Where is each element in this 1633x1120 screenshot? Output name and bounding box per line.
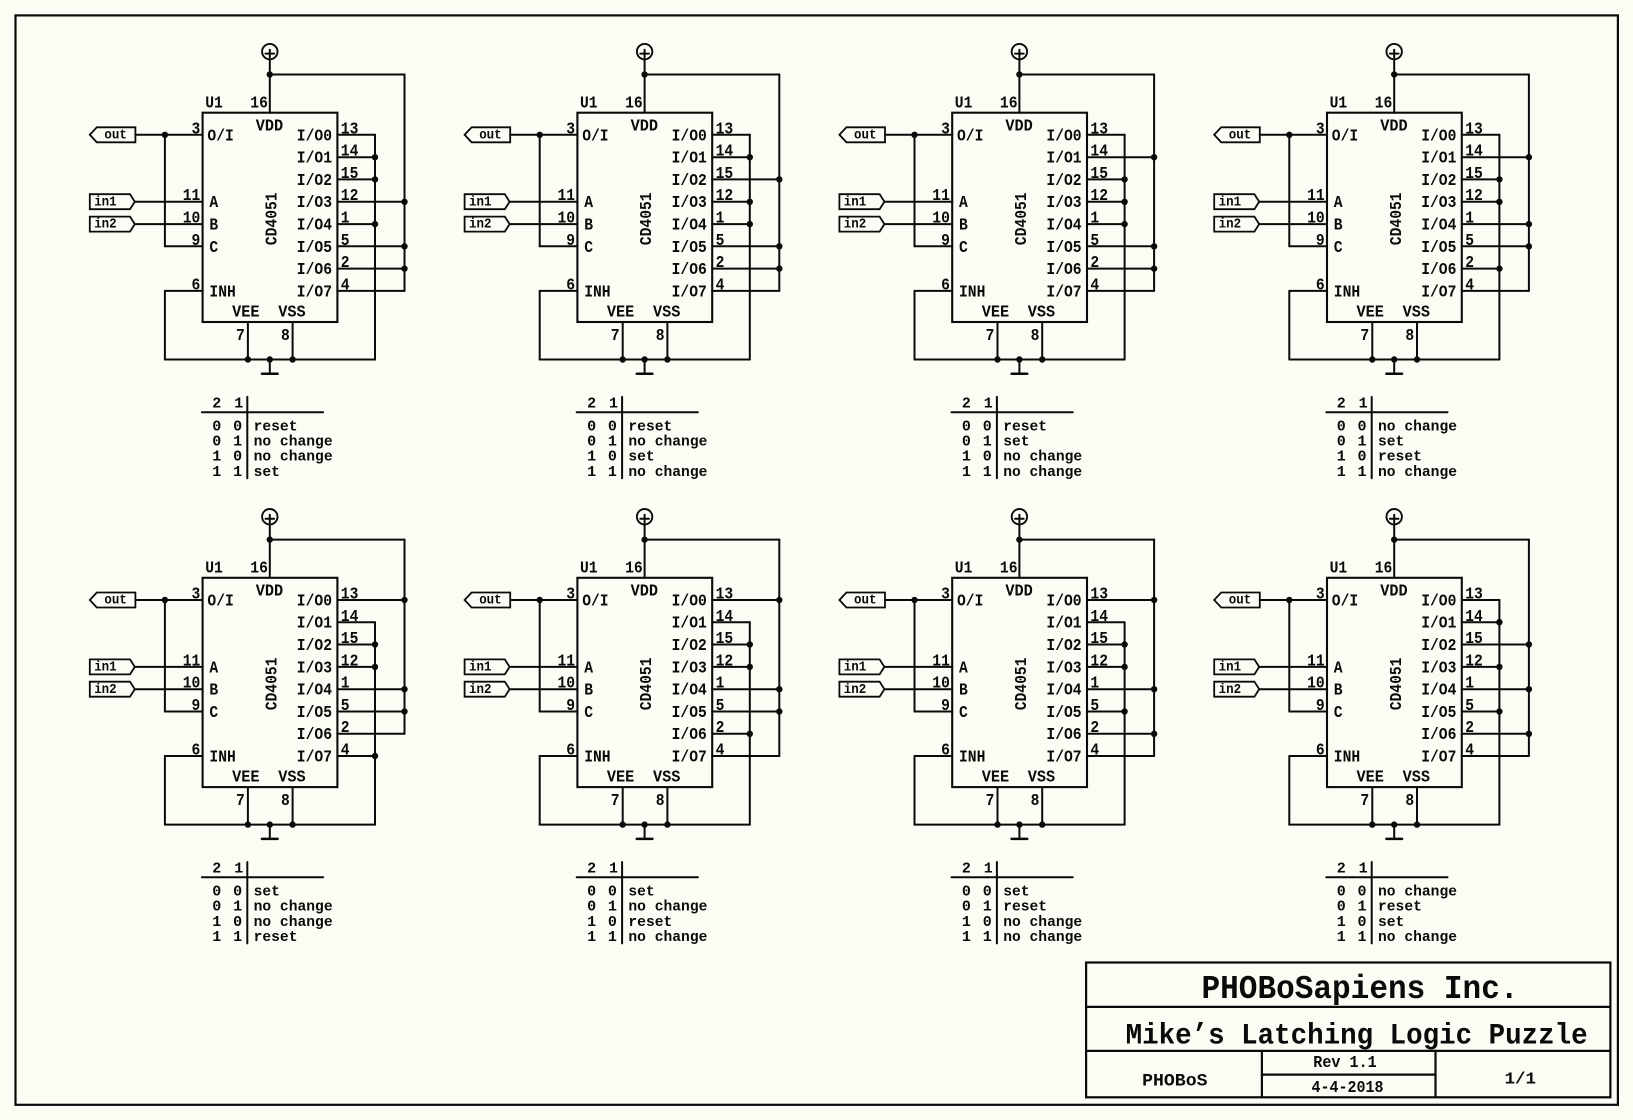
svg-text:I/O2: I/O2 (297, 172, 332, 191)
svg-text:VSS: VSS (278, 769, 305, 788)
svg-text:8: 8 (656, 792, 665, 811)
svg-text:I/O2: I/O2 (1046, 637, 1081, 656)
svg-text:2: 2 (1337, 395, 1346, 412)
svg-text:INH: INH (584, 283, 610, 302)
svg-text:VSS: VSS (278, 303, 305, 322)
svg-text:I/O3: I/O3 (1421, 194, 1456, 213)
svg-text:1: 1 (983, 929, 992, 946)
svg-text:I/O4: I/O4 (1046, 217, 1081, 236)
svg-text:INH: INH (959, 749, 985, 768)
svg-text:I/O0: I/O0 (1046, 592, 1081, 611)
svg-text:out: out (479, 127, 502, 143)
svg-text:I/O3: I/O3 (1421, 659, 1456, 678)
svg-text:8: 8 (1405, 792, 1414, 811)
svg-text:VEE: VEE (232, 303, 259, 322)
svg-text:VDD: VDD (256, 582, 283, 601)
svg-text:2: 2 (1090, 254, 1099, 273)
svg-text:U1: U1 (580, 560, 598, 579)
svg-text:9: 9 (566, 232, 575, 251)
svg-text:I/O1: I/O1 (672, 150, 707, 169)
svg-text:3: 3 (941, 120, 950, 139)
svg-text:9: 9 (1316, 232, 1325, 251)
svg-text:1: 1 (233, 929, 242, 946)
svg-text:B: B (584, 682, 593, 701)
svg-text:I/O6: I/O6 (297, 261, 332, 280)
svg-text:8: 8 (281, 792, 290, 811)
svg-text:in1: in1 (1219, 660, 1242, 676)
svg-text:9: 9 (192, 697, 201, 716)
svg-text:U1: U1 (205, 560, 223, 579)
svg-text:I/O1: I/O1 (297, 615, 332, 634)
svg-text:14: 14 (1465, 143, 1483, 162)
svg-text:out: out (104, 127, 127, 143)
svg-text:2: 2 (962, 395, 971, 412)
svg-text:in2: in2 (1219, 682, 1242, 698)
svg-text:I/O6: I/O6 (1421, 261, 1456, 280)
svg-text:16: 16 (250, 95, 268, 114)
svg-text:1: 1 (1359, 395, 1368, 412)
svg-text:A: A (959, 659, 968, 678)
svg-text:4: 4 (1465, 276, 1474, 295)
svg-text:1: 1 (962, 929, 971, 946)
svg-text:INH: INH (209, 283, 235, 302)
svg-text:INH: INH (959, 283, 985, 302)
svg-text:3: 3 (941, 586, 950, 605)
svg-text:U1: U1 (955, 95, 973, 114)
svg-text:in1: in1 (94, 194, 117, 210)
svg-text:1: 1 (962, 464, 971, 481)
svg-text:4: 4 (1090, 276, 1099, 295)
svg-text:16: 16 (1375, 95, 1393, 114)
svg-text:I/O0: I/O0 (672, 592, 707, 611)
svg-text:I/O7: I/O7 (1046, 283, 1081, 302)
svg-text:16: 16 (1000, 560, 1018, 579)
svg-text:I/O3: I/O3 (672, 194, 707, 213)
svg-text:I/O0: I/O0 (1421, 592, 1456, 611)
svg-text:1: 1 (984, 395, 993, 412)
svg-text:11: 11 (932, 187, 950, 206)
svg-text:C: C (584, 239, 593, 258)
svg-text:VDD: VDD (1380, 117, 1407, 136)
svg-text:VSS: VSS (1403, 769, 1430, 788)
svg-text:10: 10 (1307, 210, 1325, 229)
svg-text:11: 11 (558, 652, 576, 671)
svg-text:VDD: VDD (631, 582, 658, 601)
svg-text:in1: in1 (94, 660, 117, 676)
svg-text:12: 12 (1090, 187, 1108, 206)
svg-text:11: 11 (183, 187, 201, 206)
svg-text:in1: in1 (469, 194, 492, 210)
svg-text:I/O6: I/O6 (1046, 726, 1081, 745)
svg-text:VSS: VSS (1403, 303, 1430, 322)
svg-text:7: 7 (611, 792, 620, 811)
svg-text:14: 14 (1090, 143, 1108, 162)
svg-text:6: 6 (566, 276, 575, 295)
svg-text:U1: U1 (580, 95, 598, 114)
svg-text:C: C (209, 239, 218, 258)
svg-text:in1: in1 (1219, 194, 1242, 210)
svg-text:15: 15 (1465, 630, 1483, 649)
svg-text:CD4051: CD4051 (638, 658, 657, 711)
svg-text:C: C (959, 239, 968, 258)
svg-text:CD4051: CD4051 (1388, 658, 1407, 711)
svg-text:A: A (584, 194, 593, 213)
svg-text:4: 4 (1465, 742, 1474, 761)
svg-text:CD4051: CD4051 (263, 658, 282, 711)
svg-text:2: 2 (716, 719, 725, 738)
svg-text:12: 12 (1465, 652, 1483, 671)
svg-text:2: 2 (341, 254, 350, 273)
svg-text:I/O4: I/O4 (672, 682, 707, 701)
svg-text:1: 1 (587, 464, 596, 481)
svg-text:6: 6 (1316, 276, 1325, 295)
svg-text:I/O0: I/O0 (672, 127, 707, 146)
svg-text:A: A (209, 194, 218, 213)
svg-text:10: 10 (558, 675, 576, 694)
svg-text:O/I: O/I (957, 127, 983, 146)
svg-text:I/O5: I/O5 (1421, 239, 1456, 258)
svg-text:B: B (1334, 217, 1343, 236)
svg-text:16: 16 (250, 560, 268, 579)
svg-text:4-4-2018: 4-4-2018 (1312, 1078, 1384, 1097)
svg-text:reset: reset (254, 929, 298, 946)
svg-text:I/O0: I/O0 (297, 592, 332, 611)
svg-text:2: 2 (587, 860, 596, 877)
svg-text:PHOBoSapiens Inc.: PHOBoSapiens Inc. (1202, 971, 1519, 1008)
svg-text:8: 8 (281, 327, 290, 346)
svg-text:VEE: VEE (232, 769, 259, 788)
svg-text:4: 4 (1090, 742, 1099, 761)
svg-text:1: 1 (608, 464, 617, 481)
svg-text:I/O3: I/O3 (297, 194, 332, 213)
svg-text:VSS: VSS (653, 769, 680, 788)
svg-text:16: 16 (1375, 560, 1393, 579)
svg-text:I/O1: I/O1 (672, 615, 707, 634)
svg-text:1: 1 (1337, 929, 1346, 946)
svg-text:5: 5 (716, 697, 725, 716)
svg-text:2: 2 (1090, 719, 1099, 738)
svg-text:I/O7: I/O7 (297, 749, 332, 768)
svg-text:4: 4 (716, 742, 725, 761)
svg-text:2: 2 (341, 719, 350, 738)
svg-text:I/O0: I/O0 (1421, 127, 1456, 146)
svg-text:13: 13 (1465, 120, 1483, 139)
svg-text:I/O7: I/O7 (297, 283, 332, 302)
svg-text:I/O1: I/O1 (1421, 615, 1456, 634)
svg-text:no change: no change (1003, 464, 1082, 481)
svg-text:VDD: VDD (1005, 582, 1032, 601)
svg-text:10: 10 (1307, 675, 1325, 694)
svg-text:1: 1 (1358, 464, 1367, 481)
svg-text:11: 11 (558, 187, 576, 206)
svg-text:U1: U1 (205, 95, 223, 114)
svg-text:I/O1: I/O1 (1046, 150, 1081, 169)
svg-text:I/O7: I/O7 (672, 749, 707, 768)
svg-text:I/O7: I/O7 (1046, 749, 1081, 768)
svg-text:14: 14 (1465, 608, 1483, 627)
svg-text:VSS: VSS (1028, 769, 1055, 788)
svg-text:1: 1 (341, 210, 350, 229)
svg-text:15: 15 (1090, 630, 1108, 649)
svg-text:I/O2: I/O2 (1421, 637, 1456, 656)
svg-text:15: 15 (1465, 165, 1483, 184)
svg-text:5: 5 (1090, 697, 1099, 716)
svg-text:7: 7 (611, 327, 620, 346)
svg-text:C: C (1334, 239, 1343, 258)
svg-text:VEE: VEE (607, 303, 634, 322)
svg-text:11: 11 (932, 652, 950, 671)
svg-text:Rev 1.1: Rev 1.1 (1313, 1053, 1377, 1072)
svg-text:2: 2 (1337, 860, 1346, 877)
svg-text:VSS: VSS (653, 303, 680, 322)
svg-text:1: 1 (1090, 675, 1099, 694)
svg-text:out: out (1229, 593, 1252, 609)
svg-text:9: 9 (192, 232, 201, 251)
svg-text:7: 7 (236, 792, 245, 811)
svg-text:I/O5: I/O5 (672, 704, 707, 723)
svg-text:I/O2: I/O2 (672, 172, 707, 191)
svg-text:16: 16 (625, 95, 643, 114)
svg-text:6: 6 (941, 742, 950, 761)
svg-text:INH: INH (1334, 749, 1360, 768)
svg-text:Mike’s Latching Logic Puzzle: Mike’s Latching Logic Puzzle (1126, 1019, 1588, 1053)
svg-text:I/O1: I/O1 (1046, 615, 1081, 634)
svg-text:I/O2: I/O2 (1046, 172, 1081, 191)
svg-text:I/O4: I/O4 (1421, 682, 1456, 701)
svg-text:8: 8 (656, 327, 665, 346)
svg-text:13: 13 (1090, 586, 1108, 605)
svg-text:PHOBoS: PHOBoS (1142, 1071, 1207, 1091)
svg-text:I/O5: I/O5 (1046, 704, 1081, 723)
svg-text:1: 1 (1090, 210, 1099, 229)
svg-text:C: C (209, 704, 218, 723)
svg-text:12: 12 (716, 187, 734, 206)
svg-text:10: 10 (183, 675, 201, 694)
svg-text:VDD: VDD (631, 117, 658, 136)
svg-text:A: A (584, 659, 593, 678)
svg-text:I/O1: I/O1 (297, 150, 332, 169)
svg-text:15: 15 (341, 630, 359, 649)
svg-text:2: 2 (587, 395, 596, 412)
svg-text:10: 10 (932, 675, 950, 694)
svg-text:out: out (479, 593, 502, 609)
svg-text:13: 13 (341, 586, 359, 605)
svg-text:I/O3: I/O3 (297, 659, 332, 678)
svg-text:VEE: VEE (1357, 303, 1384, 322)
svg-text:1: 1 (716, 210, 725, 229)
svg-text:12: 12 (1090, 652, 1108, 671)
svg-text:I/O6: I/O6 (1046, 261, 1081, 280)
svg-text:1: 1 (234, 860, 243, 877)
svg-text:U1: U1 (1330, 560, 1348, 579)
svg-text:1: 1 (234, 395, 243, 412)
svg-text:1: 1 (212, 929, 221, 946)
svg-text:no change: no change (1003, 929, 1082, 946)
svg-text:12: 12 (1465, 187, 1483, 206)
svg-text:O/I: O/I (582, 592, 608, 611)
svg-text:I/O5: I/O5 (1421, 704, 1456, 723)
svg-text:5: 5 (1465, 232, 1474, 251)
svg-text:C: C (959, 704, 968, 723)
svg-text:10: 10 (558, 210, 576, 229)
svg-text:13: 13 (341, 120, 359, 139)
svg-text:I/O7: I/O7 (1421, 749, 1456, 768)
svg-text:4: 4 (341, 742, 350, 761)
svg-text:14: 14 (716, 143, 734, 162)
svg-text:3: 3 (566, 586, 575, 605)
svg-text:9: 9 (566, 697, 575, 716)
svg-text:VSS: VSS (1028, 303, 1055, 322)
svg-text:I/O4: I/O4 (1421, 217, 1456, 236)
svg-text:16: 16 (625, 560, 643, 579)
svg-text:5: 5 (1090, 232, 1099, 251)
svg-text:B: B (959, 217, 968, 236)
svg-text:I/O0: I/O0 (297, 127, 332, 146)
svg-text:I/O4: I/O4 (672, 217, 707, 236)
svg-text:5: 5 (1465, 697, 1474, 716)
svg-text:1: 1 (608, 929, 617, 946)
svg-text:11: 11 (183, 652, 201, 671)
svg-text:CD4051: CD4051 (1013, 658, 1032, 711)
svg-text:I/O5: I/O5 (297, 704, 332, 723)
svg-text:1/1: 1/1 (1505, 1070, 1536, 1089)
svg-text:out: out (1229, 127, 1252, 143)
svg-text:10: 10 (932, 210, 950, 229)
svg-text:in2: in2 (94, 217, 117, 233)
svg-text:2: 2 (716, 254, 725, 273)
svg-text:12: 12 (341, 187, 359, 206)
svg-text:10: 10 (183, 210, 201, 229)
svg-text:I/O7: I/O7 (672, 283, 707, 302)
svg-text:3: 3 (192, 120, 201, 139)
svg-text:I/O2: I/O2 (672, 637, 707, 656)
svg-text:I/O1: I/O1 (1421, 150, 1456, 169)
svg-text:out: out (854, 593, 877, 609)
svg-text:2: 2 (962, 860, 971, 877)
svg-text:A: A (1334, 659, 1343, 678)
svg-text:1: 1 (341, 675, 350, 694)
svg-text:in1: in1 (844, 660, 867, 676)
svg-text:6: 6 (192, 276, 201, 295)
svg-text:6: 6 (192, 742, 201, 761)
svg-text:INH: INH (209, 749, 235, 768)
svg-text:in2: in2 (844, 217, 867, 233)
svg-text:INH: INH (584, 749, 610, 768)
svg-text:15: 15 (716, 630, 734, 649)
svg-text:6: 6 (941, 276, 950, 295)
svg-text:no change: no change (1378, 464, 1457, 481)
svg-text:I/O6: I/O6 (297, 726, 332, 745)
svg-text:8: 8 (1405, 327, 1414, 346)
svg-text:15: 15 (341, 165, 359, 184)
svg-text:11: 11 (1307, 652, 1325, 671)
svg-text:in1: in1 (469, 660, 492, 676)
svg-text:1: 1 (1358, 929, 1367, 946)
svg-text:7: 7 (986, 327, 995, 346)
svg-text:4: 4 (341, 276, 350, 295)
svg-text:14: 14 (341, 143, 359, 162)
svg-text:B: B (959, 682, 968, 701)
svg-text:O/I: O/I (957, 592, 983, 611)
svg-text:6: 6 (566, 742, 575, 761)
svg-text:VDD: VDD (1005, 117, 1032, 136)
svg-text:VDD: VDD (256, 117, 283, 136)
svg-text:9: 9 (1316, 697, 1325, 716)
svg-text:I/O5: I/O5 (1046, 239, 1081, 258)
svg-text:I/O4: I/O4 (1046, 682, 1081, 701)
svg-text:1: 1 (233, 464, 242, 481)
svg-text:in1: in1 (844, 194, 867, 210)
svg-text:no change: no change (1378, 929, 1457, 946)
svg-text:I/O5: I/O5 (297, 239, 332, 258)
svg-text:VDD: VDD (1380, 582, 1407, 601)
svg-text:I/O4: I/O4 (297, 217, 332, 236)
svg-text:1: 1 (984, 860, 993, 877)
svg-text:7: 7 (1360, 792, 1369, 811)
svg-text:out: out (854, 127, 877, 143)
svg-text:A: A (959, 194, 968, 213)
svg-text:I/O2: I/O2 (297, 637, 332, 656)
svg-text:U1: U1 (1330, 95, 1348, 114)
svg-text:VEE: VEE (982, 303, 1009, 322)
svg-text:A: A (1334, 194, 1343, 213)
svg-text:9: 9 (941, 697, 950, 716)
svg-text:11: 11 (1307, 187, 1325, 206)
svg-text:15: 15 (1090, 165, 1108, 184)
svg-text:1: 1 (1465, 210, 1474, 229)
svg-text:4: 4 (716, 276, 725, 295)
svg-text:VEE: VEE (607, 769, 634, 788)
svg-text:no change: no change (628, 464, 707, 481)
svg-text:1: 1 (609, 860, 618, 877)
svg-text:I/O6: I/O6 (1421, 726, 1456, 745)
svg-text:I/O3: I/O3 (1046, 659, 1081, 678)
svg-text:14: 14 (716, 608, 734, 627)
svg-text:2: 2 (212, 395, 221, 412)
svg-text:O/I: O/I (1332, 127, 1358, 146)
svg-text:B: B (584, 217, 593, 236)
svg-text:U1: U1 (955, 560, 973, 579)
svg-text:16: 16 (1000, 95, 1018, 114)
svg-text:O/I: O/I (582, 127, 608, 146)
svg-text:CD4051: CD4051 (1013, 192, 1032, 245)
svg-text:I/O6: I/O6 (672, 726, 707, 745)
svg-text:15: 15 (716, 165, 734, 184)
svg-text:3: 3 (1316, 120, 1325, 139)
svg-text:out: out (104, 593, 127, 609)
svg-text:12: 12 (716, 652, 734, 671)
svg-text:1: 1 (212, 464, 221, 481)
svg-text:O/I: O/I (1332, 592, 1358, 611)
svg-text:CD4051: CD4051 (638, 192, 657, 245)
svg-text:A: A (209, 659, 218, 678)
svg-text:O/I: O/I (207, 592, 233, 611)
svg-text:5: 5 (716, 232, 725, 251)
svg-text:3: 3 (1316, 586, 1325, 605)
svg-text:I/O0: I/O0 (1046, 127, 1081, 146)
svg-text:set: set (254, 464, 280, 481)
svg-text:1: 1 (1337, 464, 1346, 481)
svg-text:B: B (209, 682, 218, 701)
svg-text:I/O2: I/O2 (1421, 172, 1456, 191)
svg-text:3: 3 (192, 586, 201, 605)
svg-text:O/I: O/I (207, 127, 233, 146)
svg-text:B: B (209, 217, 218, 236)
svg-text:in2: in2 (1219, 217, 1242, 233)
svg-text:I/O7: I/O7 (1421, 283, 1456, 302)
svg-text:12: 12 (341, 652, 359, 671)
svg-text:9: 9 (941, 232, 950, 251)
